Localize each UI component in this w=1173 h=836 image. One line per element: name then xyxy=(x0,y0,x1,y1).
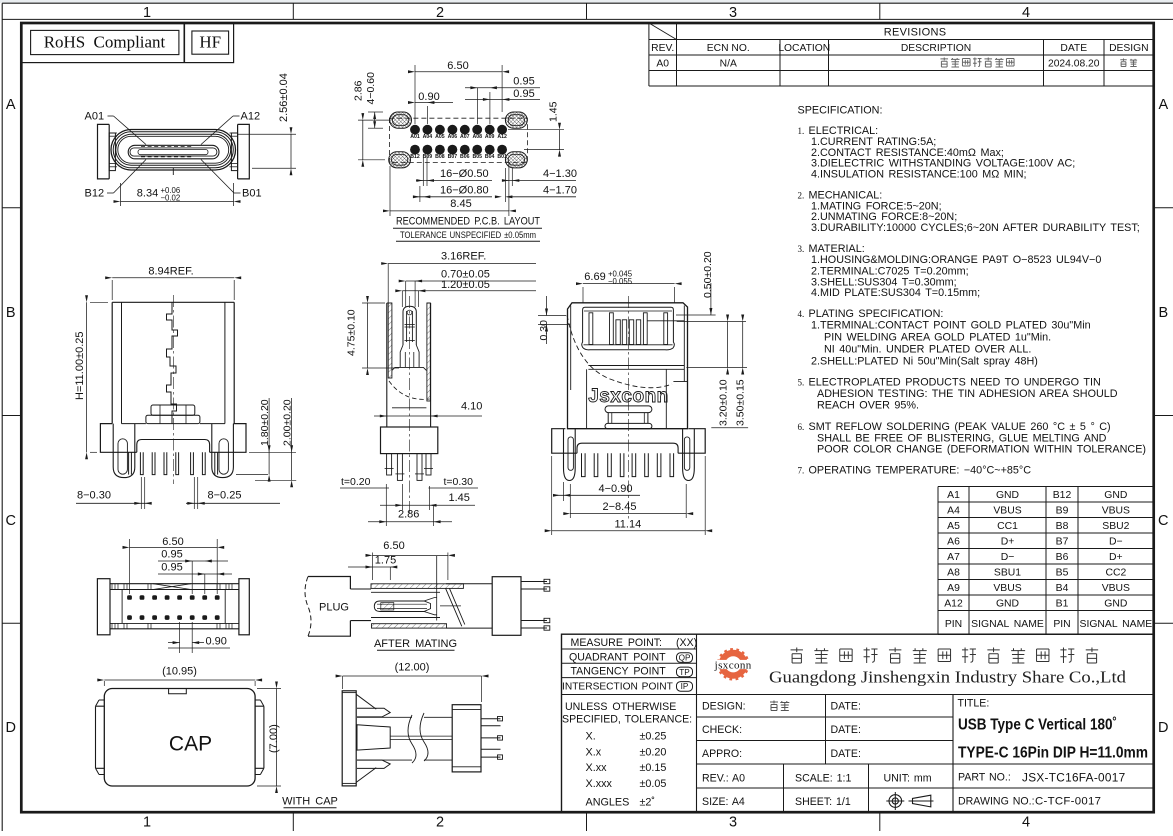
svg-text:TP: TP xyxy=(679,668,690,677)
svg-text:SMT REFLOW SOLDERING (PEAK: SMT REFLOW SOLDERING (PEAK VALUE 260 °C … xyxy=(809,421,1111,433)
svg-text:CHECK:: CHECK: xyxy=(702,724,742,736)
svg-text:NI 40u"Min. UNDER PLATED O: NI 40u"Min. UNDER PLATED OVER ALL. xyxy=(824,343,1031,355)
svg-text:CC2: CC2 xyxy=(1105,567,1126,578)
svg-text:QUADRANT POINT: QUADRANT POINT xyxy=(569,651,666,663)
svg-text:2.86: 2.86 xyxy=(353,80,365,101)
svg-text:4−1.30: 4−1.30 xyxy=(543,168,577,180)
svg-text:0.90: 0.90 xyxy=(206,636,227,648)
svg-text:PLATING SPECIFICATION:: PLATING SPECIFICATION: xyxy=(809,308,944,320)
svg-text:Guangdong Jinshengxin Industry: Guangdong Jinshengxin Industry Share Co.… xyxy=(769,668,1127,687)
svg-text:D: D xyxy=(1158,720,1168,736)
svg-text:t=0.30: t=0.30 xyxy=(444,476,474,488)
svg-text:8−0.30: 8−0.30 xyxy=(77,490,111,502)
svg-text:APPRO:: APPRO: xyxy=(702,748,742,760)
svg-text:DRAWING NO.:: DRAWING NO.: xyxy=(958,796,1035,808)
svg-text:2.SHELL:PLATED Ni 50u"Min(Sa: 2.SHELL:PLATED Ni 50u"Min(Salt spray 48H… xyxy=(811,356,1038,368)
svg-text:1.45: 1.45 xyxy=(449,492,470,504)
svg-text:2.: 2. xyxy=(798,191,805,201)
svg-text:D−: D− xyxy=(1001,552,1015,563)
svg-text:3.16REF.: 3.16REF. xyxy=(441,251,486,263)
svg-text:3.20±0.10: 3.20±0.10 xyxy=(718,379,730,426)
svg-text:GND: GND xyxy=(996,598,1019,609)
svg-text:(XX): (XX) xyxy=(676,637,697,649)
svg-text:1.HOUSING&MOLDING:ORANGE PA9T: 1.HOUSING&MOLDING:ORANGE PA9T O−8523 UL9… xyxy=(811,254,1101,266)
svg-text:SIGNAL NAME: SIGNAL NAME xyxy=(971,619,1044,630)
svg-text:SCALE: 1:1: SCALE: 1:1 xyxy=(795,773,851,785)
svg-text:B4: B4 xyxy=(1056,583,1069,594)
svg-text:1.45: 1.45 xyxy=(548,101,560,122)
svg-text:A08: A08 xyxy=(472,134,482,140)
svg-text:B07: B07 xyxy=(448,154,458,160)
svg-text:6.69: 6.69 xyxy=(584,271,605,283)
svg-text:B12: B12 xyxy=(1053,490,1072,501)
svg-text:DESCRIPTION: DESCRIPTION xyxy=(901,43,971,54)
svg-text:A07: A07 xyxy=(460,134,470,140)
svg-text:4: 4 xyxy=(1022,815,1030,831)
svg-text:jsxconn: jsxconn xyxy=(714,659,752,671)
svg-text:(10.95): (10.95) xyxy=(162,666,197,678)
svg-text:B08: B08 xyxy=(435,154,445,160)
view: front elevation xyxy=(538,251,748,535)
svg-text:2024.08.20: 2024.08.20 xyxy=(1048,58,1100,69)
pin assignment table xyxy=(938,487,1154,635)
RoHS Compliant box xyxy=(21,23,233,63)
svg-text:0.95: 0.95 xyxy=(161,549,182,561)
svg-text:REVISIONS: REVISIONS xyxy=(884,26,947,38)
svg-text:ECN NO.: ECN NO. xyxy=(707,43,750,54)
svg-text:WITH CAP: WITH CAP xyxy=(282,796,338,808)
svg-text:QP: QP xyxy=(679,654,691,663)
svg-text:A06: A06 xyxy=(448,134,458,140)
svg-text:PLUG: PLUG xyxy=(319,602,349,614)
view: side elevation xyxy=(74,266,296,510)
svg-text:SHEET: 1/1: SHEET: 1/1 xyxy=(795,796,851,808)
svg-text:REV.: A0: REV.: A0 xyxy=(702,773,745,785)
svg-text:±2˚: ±2˚ xyxy=(640,797,656,809)
svg-text:SPECIFICATION:: SPECIFICATION: xyxy=(798,105,883,117)
svg-text:1.20±0.05: 1.20±0.05 xyxy=(441,279,490,291)
svg-text:2.56±0.04: 2.56±0.04 xyxy=(278,73,290,122)
svg-text:B1: B1 xyxy=(1056,598,1069,609)
svg-text:C: C xyxy=(1158,513,1168,529)
dims 3.20/3.50 xyxy=(677,321,746,323)
view: cap xyxy=(96,666,338,808)
view: bottom view xyxy=(97,536,249,653)
svg-text:X.xx: X.xx xyxy=(586,762,608,774)
svg-text:SBU1: SBU1 xyxy=(994,567,1021,578)
svg-text:X.xxx: X.xxx xyxy=(586,778,613,790)
svg-text:ADHESION TESTING: THE TIN: ADHESION TESTING: THE TIN ADHESION AREA … xyxy=(817,388,1118,400)
svg-text:RECOMMENDED P.C.B. LAYOUT: RECOMMENDED P.C.B. LAYOUT xyxy=(396,216,540,228)
svg-text:VBUS: VBUS xyxy=(993,583,1021,594)
svg-text:t=0.20: t=0.20 xyxy=(341,476,371,488)
projection symbols xyxy=(886,792,933,810)
specification text xyxy=(798,105,1147,477)
svg-text:B6: B6 xyxy=(1056,552,1069,563)
view: recommended PCB layout xyxy=(353,60,577,241)
svg-text:A01: A01 xyxy=(410,134,420,140)
svg-text:IP: IP xyxy=(681,682,689,691)
svg-text:A12: A12 xyxy=(944,598,963,609)
svg-text:C-TCF-0017: C-TCF-0017 xyxy=(1035,796,1101,808)
svg-text:VBUS: VBUS xyxy=(1102,505,1130,516)
svg-text:D: D xyxy=(5,720,15,736)
svg-text:A12: A12 xyxy=(497,134,507,140)
svg-text:TYPE-C 16Pin DIP H=11.0mm: TYPE-C 16Pin DIP H=11.0mm xyxy=(958,745,1148,762)
svg-text:4.10: 4.10 xyxy=(461,401,482,413)
svg-text:1: 1 xyxy=(143,5,151,21)
svg-text:7.: 7. xyxy=(798,466,805,476)
revisions table xyxy=(649,23,1154,86)
svg-text:B: B xyxy=(1158,305,1168,321)
svg-text:A8: A8 xyxy=(947,567,960,578)
svg-text:B: B xyxy=(6,305,16,321)
view: connector top view xyxy=(85,73,297,206)
svg-text:D−: D− xyxy=(1109,536,1123,547)
svg-text:4: 4 xyxy=(1022,5,1030,21)
svg-text:VBUS: VBUS xyxy=(993,505,1021,516)
svg-text:4.MID PLATE:SUS304 T=0.15mm;: 4.MID PLATE:SUS304 T=0.15mm; xyxy=(811,287,980,299)
svg-text:INTERSECTION POINT: INTERSECTION POINT xyxy=(562,682,673,693)
svg-text:±0.15: ±0.15 xyxy=(640,762,667,774)
svg-text:(12.00): (12.00) xyxy=(395,662,430,674)
svg-text:A09: A09 xyxy=(485,134,495,140)
svg-text:16−Ø0.80: 16−Ø0.80 xyxy=(440,184,489,196)
svg-text:8.34: 8.34 xyxy=(137,188,158,200)
svg-text:16−Ø0.50: 16−Ø0.50 xyxy=(440,168,489,180)
svg-text:3: 3 xyxy=(729,815,737,831)
svg-text:(7.00): (7.00) xyxy=(268,724,280,753)
svg-text:UNLESS OTHERWISE: UNLESS OTHERWISE xyxy=(565,701,676,713)
svg-text:A: A xyxy=(6,97,16,113)
svg-text:B05: B05 xyxy=(472,154,482,160)
svg-text:SBU2: SBU2 xyxy=(1102,521,1129,532)
svg-text:DESIGN:: DESIGN: xyxy=(702,701,746,713)
svg-text:11.14: 11.14 xyxy=(615,519,642,531)
svg-text:A1: A1 xyxy=(947,490,960,501)
svg-text:VBUS: VBUS xyxy=(1102,583,1130,594)
svg-text:A6: A6 xyxy=(947,536,960,547)
svg-text:1.TERMINAL:CONTACT POINT GOL: 1.TERMINAL:CONTACT POINT GOLD PLATED 30u… xyxy=(811,320,1091,332)
svg-text:B9: B9 xyxy=(1056,505,1069,516)
svg-text:HF: HF xyxy=(199,33,221,52)
svg-text:N/A: N/A xyxy=(720,58,737,69)
svg-text:ELECTROPLATED PRODUCTS NEED: ELECTROPLATED PRODUCTS NEED TO UNDERGO T… xyxy=(809,377,1101,389)
svg-text:6.50: 6.50 xyxy=(383,540,404,552)
svg-text:D+: D+ xyxy=(1109,552,1123,563)
svg-text:CC1: CC1 xyxy=(997,521,1018,532)
svg-text:A0: A0 xyxy=(656,58,669,69)
svg-text:ANGLES: ANGLES xyxy=(586,797,630,809)
svg-text:REACH OVER 95%.: REACH OVER 95%. xyxy=(817,399,919,411)
svg-text:4.INSULATION RESISTANCE:100: 4.INSULATION RESISTANCE:100 MΩ MIN; xyxy=(811,168,1027,180)
svg-text:B01: B01 xyxy=(497,154,507,160)
svg-text:3.DURABILITY:10000 CYCLES;6~2: 3.DURABILITY:10000 CYCLES;6~20N AFTER DU… xyxy=(811,222,1140,234)
svg-text:3.50±0.15: 3.50±0.15 xyxy=(735,379,747,426)
svg-text:SIGNAL NAME: SIGNAL NAME xyxy=(1080,619,1153,630)
svg-text:D+: D+ xyxy=(1001,536,1015,547)
svg-text:4.: 4. xyxy=(798,309,805,319)
svg-text:TOLERANCE UNSPECIFIED ±0.05mm: TOLERANCE UNSPECIFIED ±0.05mm xyxy=(400,230,536,241)
svg-text:1.: 1. xyxy=(798,126,805,136)
svg-text:TANGENCY POINT: TANGENCY POINT xyxy=(571,666,667,678)
svg-text:0.50±0.20: 0.50±0.20 xyxy=(702,251,714,298)
svg-text:X.: X. xyxy=(586,731,596,743)
svg-text:8−0.25: 8−0.25 xyxy=(208,490,242,502)
svg-text:0.30: 0.30 xyxy=(538,320,550,341)
svg-text:A04: A04 xyxy=(423,134,433,140)
svg-text:OPERATING TEMPERATURE: −40°C: OPERATING TEMPERATURE: −40°C~+85°C xyxy=(809,465,1032,477)
svg-text:5.: 5. xyxy=(798,378,805,388)
svg-text:A12: A12 xyxy=(241,111,261,123)
svg-text:A4: A4 xyxy=(947,505,960,516)
svg-text:B12: B12 xyxy=(85,188,105,200)
svg-text:4−0.60: 4−0.60 xyxy=(365,72,377,105)
svg-text:2−8.45: 2−8.45 xyxy=(603,501,637,513)
svg-text:1.75: 1.75 xyxy=(375,555,396,567)
svg-text:POOR COLOR CHANGE (DEFORMAT: POOR COLOR CHANGE (DEFORMATION WITHIN TO… xyxy=(817,444,1146,456)
svg-text:0.95: 0.95 xyxy=(161,562,182,574)
svg-text:GND: GND xyxy=(996,490,1019,501)
svg-text:A: A xyxy=(1158,97,1168,113)
svg-text:6.50: 6.50 xyxy=(447,60,468,72)
svg-text:4−1.70: 4−1.70 xyxy=(543,184,577,196)
svg-text:A7: A7 xyxy=(947,552,960,563)
svg-text:0.90: 0.90 xyxy=(418,91,439,103)
svg-text:B8: B8 xyxy=(1056,521,1069,532)
svg-text:B7: B7 xyxy=(1056,536,1069,547)
svg-text:0.95: 0.95 xyxy=(513,76,534,88)
svg-text:±0.20: ±0.20 xyxy=(640,746,667,758)
svg-text:PIN: PIN xyxy=(1053,619,1070,630)
svg-text:1: 1 xyxy=(143,815,151,831)
svg-text:4−0.90: 4−0.90 xyxy=(599,483,633,495)
svg-text:DATE: DATE xyxy=(1060,43,1087,54)
svg-text:A05: A05 xyxy=(435,134,445,140)
svg-text:±0.05: ±0.05 xyxy=(640,778,667,790)
company name xyxy=(791,648,803,664)
svg-text:A5: A5 xyxy=(947,521,960,532)
svg-text:GND: GND xyxy=(1104,598,1127,609)
svg-text:SPECIFIED, TOLERANCE:: SPECIFIED, TOLERANCE: xyxy=(562,714,692,726)
svg-text:B09: B09 xyxy=(423,154,433,160)
svg-text:PIN WELDING AREA GOLD PLAT: PIN WELDING AREA GOLD PLATED 1u"Min. xyxy=(824,331,1051,343)
svg-text:SIZE: A4: SIZE: A4 xyxy=(702,796,745,808)
svg-text:DATE:: DATE: xyxy=(831,701,861,713)
svg-text:±0.25: ±0.25 xyxy=(640,731,667,743)
svg-text:PART NO.:: PART NO.: xyxy=(958,772,1011,784)
svg-text:−0.055: −0.055 xyxy=(608,277,633,286)
svg-text:6.: 6. xyxy=(798,422,805,432)
svg-text:2: 2 xyxy=(436,815,444,831)
svg-text:PIN: PIN xyxy=(945,619,962,630)
svg-text:X.x: X.x xyxy=(586,746,602,758)
svg-text:DATE:: DATE: xyxy=(831,748,861,760)
svg-text:AFTER MATING: AFTER MATING xyxy=(374,638,457,650)
svg-text:TITLE:: TITLE: xyxy=(958,698,990,710)
svg-text:B06: B06 xyxy=(460,154,470,160)
jsxconn logo xyxy=(710,649,756,679)
svg-text:C: C xyxy=(5,513,15,529)
svg-text:A01: A01 xyxy=(85,111,105,123)
svg-text:JSX-TC16FA-0017: JSX-TC16FA-0017 xyxy=(1022,771,1126,785)
svg-text:B12: B12 xyxy=(410,154,420,160)
svg-text:B5: B5 xyxy=(1056,567,1069,578)
view: section through shell xyxy=(340,251,536,527)
svg-text:3: 3 xyxy=(729,5,737,21)
view: after mating xyxy=(305,540,550,650)
svg-text:USB Type C Vertical 180˚: USB Type C Vertical 180˚ xyxy=(958,717,1117,734)
view: cap side view xyxy=(336,662,503,786)
svg-text:SHALL BE FREE OF BLISTERIN: SHALL BE FREE OF BLISTERING, GLUE MELTIN… xyxy=(817,432,1107,444)
svg-text:6.50: 6.50 xyxy=(162,536,183,548)
svg-text:3.: 3. xyxy=(798,244,805,254)
svg-text:CAP: CAP xyxy=(169,733,212,756)
svg-text:UNIT: mm: UNIT: mm xyxy=(884,773,932,785)
svg-text:RoHS Compliant: RoHS Compliant xyxy=(44,33,166,52)
svg-text:A9: A9 xyxy=(947,583,960,594)
svg-text:H=11.00±0.25: H=11.00±0.25 xyxy=(74,331,86,400)
svg-text:0.95: 0.95 xyxy=(513,88,534,100)
svg-text:8.94REF.: 8.94REF. xyxy=(148,266,193,278)
title block xyxy=(562,634,1154,812)
svg-text:DATE:: DATE: xyxy=(831,724,861,736)
svg-text:2.86: 2.86 xyxy=(398,509,419,521)
svg-text:B01: B01 xyxy=(242,188,262,200)
svg-text:LOCATION: LOCATION xyxy=(778,43,830,54)
svg-text:GND: GND xyxy=(1104,490,1127,501)
svg-text:MEASURE POINT:: MEASURE POINT: xyxy=(571,637,662,649)
svg-text:DESIGN: DESIGN xyxy=(1109,43,1148,54)
svg-text:8.45: 8.45 xyxy=(450,198,471,210)
svg-text:2: 2 xyxy=(436,5,444,21)
svg-text:B04: B04 xyxy=(485,154,495,160)
HF box xyxy=(192,31,229,54)
svg-text:REV.: REV. xyxy=(651,43,674,54)
svg-text:4.75±0.10: 4.75±0.10 xyxy=(346,309,358,356)
